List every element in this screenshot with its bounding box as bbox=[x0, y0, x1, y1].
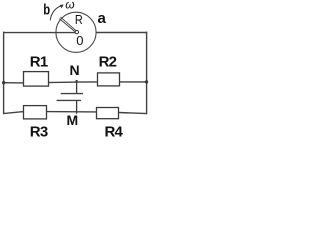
svg-text:M: M bbox=[67, 112, 79, 128]
svg-text:N: N bbox=[70, 62, 80, 78]
wire left stub to R1 bbox=[4, 82, 24, 84]
capacitor top plate bbox=[61, 93, 83, 95]
svg-text:R: R bbox=[75, 12, 83, 27]
wire bottom rail middle bbox=[47, 111, 97, 113]
capacitor bottom plate bbox=[57, 99, 81, 101]
wire bottom rail left bbox=[3, 112, 23, 114]
rotation arrow arc bbox=[50, 6, 61, 21]
node N junction tick bbox=[76, 80, 78, 82]
junction dot left bbox=[2, 81, 5, 84]
resistor R4 bbox=[97, 108, 119, 119]
wire left vertical bbox=[3, 32, 5, 115]
svg-text:ω: ω bbox=[65, 0, 74, 12]
rotation arrowhead bbox=[60, 5, 64, 9]
svg-text:b: b bbox=[43, 1, 50, 18]
wire right vertical bbox=[146, 32, 148, 115]
wire node N to R2 bbox=[77, 81, 99, 83]
svg-text:R2: R2 bbox=[99, 54, 117, 71]
resistor R3 bbox=[24, 106, 47, 119]
wire R2 to right vertical bbox=[119, 81, 147, 83]
svg-text:R3: R3 bbox=[30, 124, 48, 141]
junction dot right bbox=[145, 80, 148, 83]
capacitor bottom lead bbox=[76, 100, 78, 113]
wire bottom rail right bbox=[119, 113, 148, 114]
svg-text:R1: R1 bbox=[30, 54, 48, 71]
svg-text:a: a bbox=[98, 10, 107, 27]
rheostat R circle bbox=[56, 12, 96, 52]
wire top-right segment from rheostat rim bbox=[96, 32, 147, 34]
rheostat wiper arm line 2 bbox=[59, 19, 76, 33]
svg-text:R4: R4 bbox=[105, 123, 124, 140]
rheostat pivot bbox=[75, 30, 78, 33]
wire R1 to node N bbox=[48, 81, 77, 84]
capacitor top lead bbox=[76, 80, 78, 93]
resistor R2 bbox=[98, 73, 120, 86]
wire top-left segment into rheostat pivot bbox=[3, 32, 77, 34]
rheostat wiper arm line 1 bbox=[60, 17, 76, 31]
resistor R1 bbox=[24, 72, 49, 87]
svg-text:0: 0 bbox=[76, 33, 83, 48]
